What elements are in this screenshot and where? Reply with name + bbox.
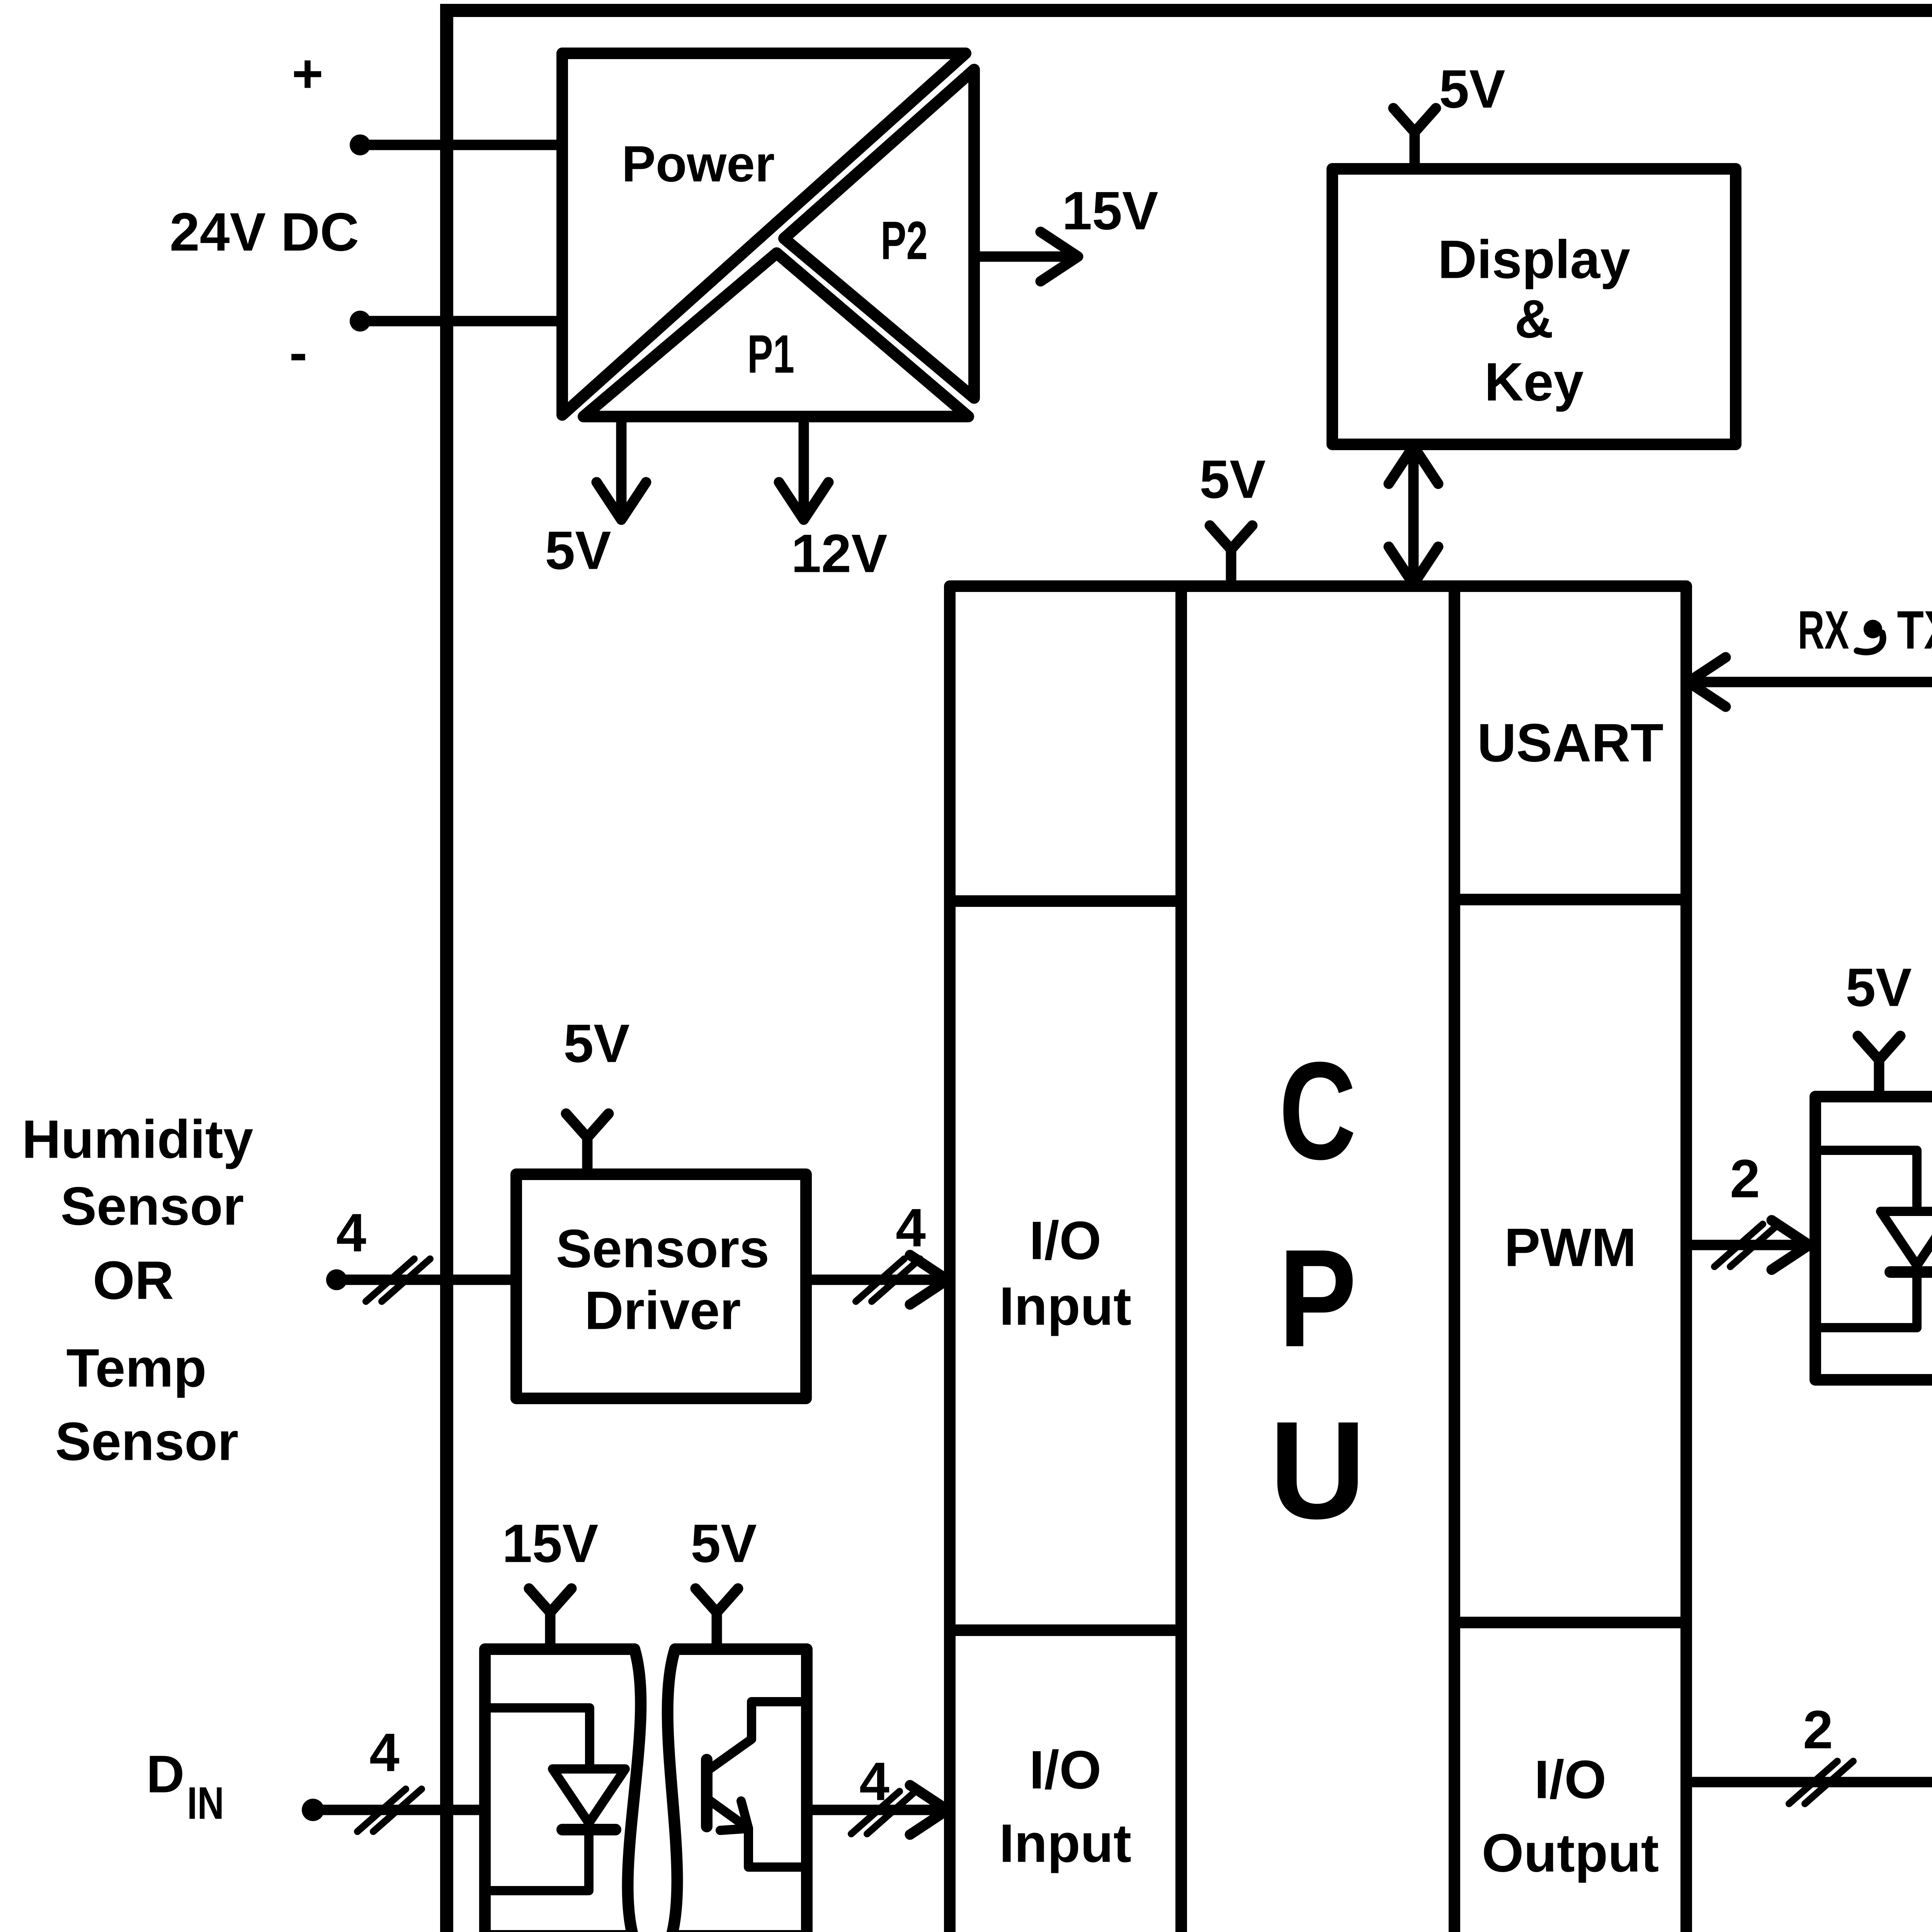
svg-text:RX: RX bbox=[1798, 600, 1849, 660]
svg-text:D: D bbox=[146, 1745, 185, 1804]
svg-text:TX: TX bbox=[1897, 600, 1932, 660]
power symbol 5V of optocoupler U2 bbox=[690, 1513, 757, 1650]
node sensor input terminal bbox=[326, 1269, 347, 1290]
svg-text:5V: 5V bbox=[1845, 957, 1912, 1018]
diode D2 inside optocoupler U2 bbox=[485, 1708, 625, 1891]
svg-text:Humidity: Humidity bbox=[22, 1109, 253, 1170]
svg-text:Driver: Driver bbox=[585, 1280, 741, 1341]
power symbol 5V of optocoupler U3 bbox=[1845, 957, 1912, 1097]
svg-text:4: 4 bbox=[859, 1751, 889, 1812]
label D_IN bbox=[146, 1745, 224, 1829]
power symbol 5V of Sensors Driver bbox=[563, 1013, 629, 1175]
svg-text:U: U bbox=[1269, 1393, 1366, 1548]
block CPU (U1) with I/O columns bbox=[950, 586, 1686, 1932]
svg-text:-: - bbox=[289, 322, 308, 383]
power symbol 5V of CPU bbox=[1199, 449, 1265, 587]
svg-text:Input: Input bbox=[999, 1276, 1131, 1337]
wire D_IN input with bus slashes bbox=[313, 1722, 485, 1832]
svg-text:C: C bbox=[1279, 1033, 1356, 1189]
svg-text:P1: P1 bbox=[747, 324, 794, 384]
svg-text:&: & bbox=[1514, 289, 1553, 349]
svg-text:Sensors: Sensors bbox=[556, 1218, 769, 1279]
svg-text:5V: 5V bbox=[545, 520, 611, 581]
wire optocoupler U2 to I/O Input with arrow and slashes bbox=[807, 1751, 947, 1835]
svg-text:4: 4 bbox=[896, 1197, 926, 1258]
phototransistor Q2 inside optocoupler U2 bbox=[707, 1702, 807, 1867]
power supply module U-PWR (Power/P1/P2) bbox=[562, 53, 974, 417]
wire -24V to power bbox=[360, 316, 562, 327]
svg-text:USART: USART bbox=[1477, 713, 1663, 773]
svg-text:4: 4 bbox=[369, 1722, 400, 1783]
svg-text:Temp: Temp bbox=[66, 1338, 207, 1398]
svg-text:5V: 5V bbox=[690, 1513, 757, 1574]
labels Humidity Sensor OR Temp Sensor bbox=[22, 1109, 253, 1472]
optocoupler U2 input side (LED box, D_IN) bbox=[485, 1649, 641, 1932]
wire 12V output of P1 with arrow bbox=[779, 417, 888, 584]
node 24V DC - terminal bbox=[289, 311, 371, 383]
svg-text:5V: 5V bbox=[1199, 449, 1265, 510]
svg-text:I/O: I/O bbox=[1029, 1210, 1102, 1271]
svg-text:15V: 15V bbox=[502, 1513, 598, 1574]
svg-text:Key: Key bbox=[1485, 352, 1584, 412]
svg-text:I/O: I/O bbox=[1029, 1740, 1102, 1800]
wire 5V output of P1 with arrow bbox=[545, 417, 646, 581]
svg-text:2: 2 bbox=[1803, 1699, 1833, 1760]
diode D3 inside optocoupler U3 bbox=[1815, 1150, 1932, 1328]
svg-text:Sensor: Sensor bbox=[61, 1176, 244, 1236]
svg-text:+: + bbox=[292, 43, 323, 104]
svg-text:Display: Display bbox=[1438, 229, 1630, 290]
optocoupler U2 output side (phototransistor box) bbox=[668, 1649, 807, 1932]
svg-text:I/O: I/O bbox=[1534, 1749, 1607, 1810]
wire PWM output of CPU with arrow and slashes bbox=[1686, 1148, 1809, 1270]
label RX و TX bbox=[1798, 600, 1932, 660]
svg-text:PWM: PWM bbox=[1504, 1217, 1636, 1278]
svg-text:Output: Output bbox=[1482, 1823, 1659, 1883]
wire RX TX bidirectional arrow CPU-TTL bbox=[1686, 657, 1932, 707]
enclosure border bbox=[447, 10, 1932, 1932]
block Sensors Driver bbox=[516, 1174, 806, 1398]
svg-text:Input: Input bbox=[999, 1813, 1131, 1874]
node 24V DC + terminal bbox=[292, 43, 371, 156]
svg-text:IN: IN bbox=[187, 1778, 224, 1829]
svg-text:P2: P2 bbox=[881, 210, 928, 271]
wire sensor input with bus slashes bbox=[336, 1202, 516, 1302]
svg-text:4: 4 bbox=[336, 1202, 366, 1263]
wire Display-CPU bidirectional arrow bbox=[1389, 444, 1438, 586]
svg-text:24V DC: 24V DC bbox=[170, 202, 359, 262]
wire 15V output of P2 with arrow bbox=[974, 180, 1158, 282]
svg-text:Power: Power bbox=[622, 136, 775, 192]
svg-text:P: P bbox=[1279, 1221, 1357, 1376]
wire +24V to power bbox=[360, 140, 562, 150]
power symbol 15V of optocoupler U2 bbox=[502, 1513, 598, 1650]
svg-text:2: 2 bbox=[1730, 1148, 1760, 1209]
power symbol 5V of Display bbox=[1393, 59, 1505, 169]
wire Sensors Driver to I/O Input with arrow and slashes bbox=[806, 1197, 947, 1305]
svg-text:Sensor: Sensor bbox=[55, 1411, 239, 1472]
svg-text:5V: 5V bbox=[1439, 59, 1505, 119]
svg-text:12V: 12V bbox=[791, 523, 887, 584]
svg-text:5V: 5V bbox=[563, 1013, 629, 1074]
svg-text:OR: OR bbox=[93, 1250, 174, 1311]
svg-text:15V: 15V bbox=[1062, 180, 1158, 241]
wire I/O Output of CPU with arrow and slash bbox=[1686, 1699, 1932, 1807]
node D_IN terminal bbox=[302, 1799, 324, 1821]
block Display & Key bbox=[1332, 169, 1736, 444]
optocoupler U3 input side (LED box, PWM) bbox=[1815, 1097, 1932, 1380]
